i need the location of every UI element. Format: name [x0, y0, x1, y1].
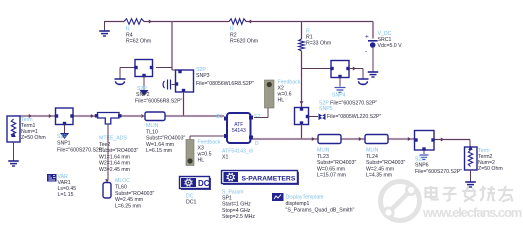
svg-text:DC: DC — [198, 179, 210, 188]
svg-text:File="600S270.S2P": File="600S270.S2P" — [415, 169, 462, 175]
svg-text:S2P: S2P — [57, 134, 67, 140]
svg-text:S-PARAMETERS: S-PARAMETERS — [242, 176, 296, 183]
svg-text:D: D — [255, 141, 259, 147]
svg-text:SNP4: SNP4 — [332, 93, 346, 99]
svg-text:+: + — [365, 34, 369, 41]
svg-text:File="08056WL6R8.S2P": File="08056WL6R8.S2P" — [196, 81, 254, 87]
svg-text:File="60056R8.S2P": File="60056R8.S2P" — [135, 99, 183, 105]
svg-text:SNP5: SNP5 — [319, 106, 333, 112]
svg-text:File="600S270.S2P": File="600S270.S2P" — [57, 148, 104, 154]
svg-text:54143: 54143 — [232, 128, 246, 134]
svg-text:-: - — [365, 48, 367, 55]
svg-text:www.elecfans.com: www.elecfans.com — [422, 205, 522, 220]
svg-text:SNP2: SNP2 — [136, 92, 150, 98]
svg-text:SNP1: SNP1 — [57, 141, 71, 147]
svg-text:SNP6: SNP6 — [415, 163, 429, 169]
svg-text:G1: G1 — [216, 114, 223, 120]
svg-text:File="0805WL220.S2P": File="0805WL220.S2P" — [327, 114, 381, 120]
